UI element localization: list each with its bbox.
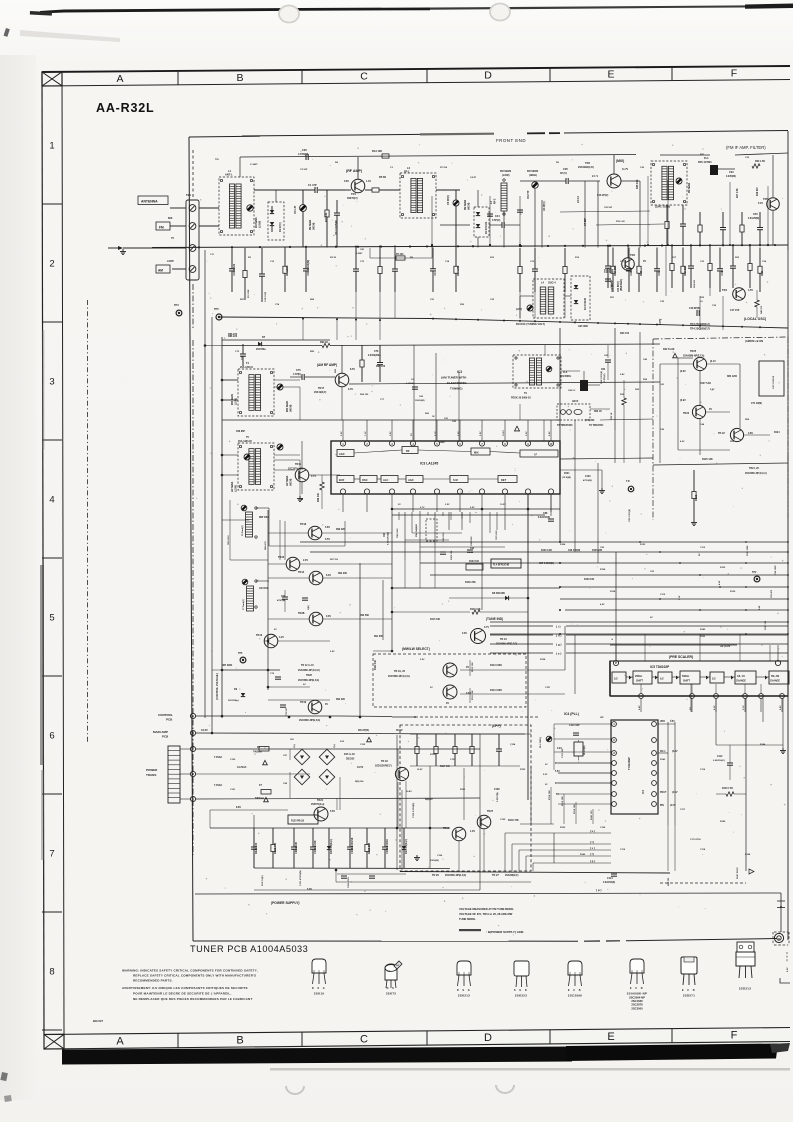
svg-text:4.5V: 4.5V bbox=[713, 705, 716, 710]
svg-text:C74: C74 bbox=[275, 303, 280, 306]
svg-text:4.5V: 4.5V bbox=[600, 603, 605, 606]
svg-text:PCB: PCB bbox=[162, 735, 169, 739]
svg-text:R94 1K: R94 1K bbox=[320, 341, 328, 344]
svg-text:C98 0.022: C98 0.022 bbox=[397, 528, 399, 538]
svg-text:NE REMPLACER QUE DES PIECES RE: NE REMPLACER QUE DES PIECES RECOMMANDEES… bbox=[133, 997, 253, 1001]
svg-text:7.3VAC: 7.3VAC bbox=[214, 756, 222, 759]
svg-text:C91 470: C91 470 bbox=[770, 589, 773, 598]
svg-text:TP2: TP2 bbox=[752, 571, 757, 574]
svg-text:4.5V: 4.5V bbox=[786, 967, 789, 972]
svg-text:2SK212: 2SK212 bbox=[458, 994, 470, 998]
svg-text:0.01/25(M): 0.01/25(M) bbox=[748, 218, 759, 220]
svg-text:(HIGH): (HIGH) bbox=[529, 174, 537, 177]
svg-text:16.5V: 16.5V bbox=[357, 766, 364, 769]
svg-text:C94 102P: C94 102P bbox=[774, 565, 777, 575]
svg-text:T81: T81 bbox=[215, 159, 220, 161]
svg-text:C32: C32 bbox=[745, 157, 750, 159]
svg-text:C82: C82 bbox=[452, 421, 457, 423]
svg-text:IC4 (PLL): IC4 (PLL) bbox=[564, 712, 579, 716]
svg-text:C119: C119 bbox=[620, 849, 626, 851]
svg-text:C123: C123 bbox=[450, 759, 456, 761]
svg-text:C96 470(M): C96 470(M) bbox=[568, 549, 580, 552]
svg-text:AGC: AGC bbox=[408, 478, 414, 482]
svg-text:C18 0.022: C18 0.022 bbox=[265, 291, 267, 302]
svg-text:R4: R4 bbox=[335, 161, 339, 164]
svg-text:2SC606K-NP(E,F,G): 2SC606K-NP(E,F,G) bbox=[299, 720, 320, 722]
svg-text:GND: GND bbox=[440, 442, 445, 444]
svg-text:AM IF: AM IF bbox=[572, 400, 579, 403]
svg-text:R84 1206: R84 1206 bbox=[727, 375, 738, 378]
svg-text:C47 0.022/16: C47 0.022/16 bbox=[772, 375, 775, 389]
svg-text:4: 4 bbox=[412, 443, 414, 446]
svg-text:+B (3.9V: +B (3.9V bbox=[720, 644, 731, 648]
svg-text:R109 10K: R109 10K bbox=[584, 579, 595, 581]
svg-text:C97 0.022: C97 0.022 bbox=[496, 530, 498, 540]
svg-text:8: 8 bbox=[49, 967, 54, 978]
svg-text:D2 SVC321: D2 SVC321 bbox=[486, 221, 488, 234]
svg-text:R28: R28 bbox=[760, 270, 764, 275]
svg-text:C100 10/16: C100 10/16 bbox=[313, 840, 317, 854]
svg-text:TR21, 26: TR21, 26 bbox=[749, 467, 760, 470]
svg-text:C109 2.2/50(M): C109 2.2/50(M) bbox=[413, 803, 415, 818]
svg-text:1.4V: 1.4V bbox=[366, 180, 371, 183]
svg-text:2.1V: 2.1V bbox=[743, 705, 745, 710]
svg-text:2: 2 bbox=[613, 738, 615, 742]
svg-text:C31: C31 bbox=[720, 270, 724, 275]
svg-text:R144: R144 bbox=[760, 743, 766, 746]
svg-text:R3 1K: R3 1K bbox=[330, 257, 337, 259]
svg-text:(TUNE IND): (TUNE IND) bbox=[486, 617, 503, 621]
svg-text:TR 19, 20: TR 19, 20 bbox=[394, 670, 406, 673]
svg-text:R120 PB110: R120 PB110 bbox=[291, 821, 305, 823]
svg-text:(AM/FM +B ON: (AM/FM +B ON bbox=[745, 339, 763, 343]
svg-text:TR18: TR18 bbox=[300, 523, 307, 526]
svg-text:C75: C75 bbox=[296, 369, 301, 372]
svg-text:3: 3 bbox=[49, 377, 54, 388]
svg-text:R(B) 140: R(B) 140 bbox=[355, 780, 364, 783]
svg-text:R86 220: R86 220 bbox=[228, 335, 238, 338]
svg-text:D7: D7 bbox=[262, 336, 266, 339]
svg-text:2.1V: 2.1V bbox=[679, 595, 681, 600]
svg-text:0.7V: 0.7V bbox=[484, 626, 489, 629]
svg-text:R93 56K: R93 56K bbox=[360, 615, 369, 617]
svg-text:SHIFT: SHIFT bbox=[636, 680, 643, 683]
svg-text:R124: R124 bbox=[774, 431, 780, 434]
svg-text:R143: R143 bbox=[660, 758, 666, 761]
svg-text:TR25: TR25 bbox=[690, 350, 697, 353]
svg-text:C25: C25 bbox=[302, 148, 307, 152]
svg-text:AGC: AGC bbox=[339, 452, 345, 456]
svg-text:0.8V: 0.8V bbox=[748, 432, 753, 435]
svg-text:C1 47P: C1 47P bbox=[308, 183, 317, 187]
svg-text:2SD313: 2SD313 bbox=[739, 987, 751, 991]
svg-text:( q ): ( q ) bbox=[590, 859, 595, 863]
svg-text:LW OSC: LW OSC bbox=[259, 587, 269, 590]
svg-text:4: 4 bbox=[49, 495, 54, 506]
svg-text:0V: 0V bbox=[709, 408, 712, 411]
svg-text:C3: C3 bbox=[390, 167, 394, 169]
svg-text:R67: R67 bbox=[240, 299, 245, 301]
svg-text:FM OSC (TUNING VOLT): FM OSC (TUNING VOLT) bbox=[516, 323, 545, 326]
svg-text:C72: C72 bbox=[235, 351, 240, 353]
svg-text:VC1 7P: VC1 7P bbox=[294, 205, 297, 214]
svg-text:3: 3 bbox=[613, 751, 615, 755]
svg-text:R106 10K: R106 10K bbox=[451, 550, 453, 560]
svg-text:2: 2 bbox=[49, 259, 54, 270]
svg-text:FM SENS: FM SENS bbox=[527, 170, 538, 173]
svg-text:7.1V: 7.1V bbox=[365, 431, 367, 436]
svg-text:800: 800 bbox=[168, 216, 173, 220]
svg-text:75: 75 bbox=[171, 236, 174, 240]
svg-text:D9: D9 bbox=[234, 688, 238, 691]
svg-text:8.5V: 8.5V bbox=[350, 368, 355, 371]
svg-text:R29 620: R29 620 bbox=[757, 187, 759, 196]
svg-text:C107: C107 bbox=[545, 687, 551, 689]
svg-text:R19 1.2K: R19 1.2K bbox=[616, 221, 625, 223]
svg-text:R135: R135 bbox=[720, 567, 726, 569]
svg-text:(BUFFER): (BUFFER) bbox=[620, 279, 623, 291]
svg-text:TP3: TP3 bbox=[174, 304, 179, 307]
svg-text:C6 3P(C): C6 3P(C) bbox=[544, 201, 546, 211]
svg-text:C77: C77 bbox=[380, 399, 385, 401]
svg-text:2.0V: 2.0V bbox=[303, 559, 308, 562]
svg-text:VOLTAGE OF IC5, TR11 to 20,: VOLTAGE OF IC5, TR11 to 20, 28 ARE MW bbox=[459, 912, 513, 916]
svg-text:(FS) 280: (FS) 280 bbox=[585, 419, 595, 422]
svg-text:C(L): C(L) bbox=[334, 744, 336, 748]
svg-text:C95: C95 bbox=[600, 547, 605, 549]
svg-text:R1 100K: R1 100K bbox=[285, 265, 289, 275]
svg-text:0.8V: 0.8V bbox=[344, 180, 349, 183]
svg-text:3: 3 bbox=[192, 772, 194, 776]
svg-text:DS1555: DS1555 bbox=[346, 759, 355, 761]
svg-text:(HIGH): (HIGH) bbox=[469, 202, 471, 210]
svg-text:6.7V: 6.7V bbox=[420, 507, 425, 509]
svg-text:R98 10K: R98 10K bbox=[318, 493, 320, 502]
svg-text:4.7P(K): 4.7P(K) bbox=[293, 373, 301, 376]
svg-text:18P: 18P bbox=[600, 717, 604, 719]
svg-text:E: E bbox=[607, 69, 614, 81]
svg-text:3SK73: 3SK73 bbox=[386, 992, 396, 996]
svg-text:C97: C97 bbox=[283, 755, 288, 757]
svg-text:R96 330: R96 330 bbox=[360, 394, 369, 396]
svg-text:R116 10K: R116 10K bbox=[574, 804, 576, 814]
svg-text:R90 1K: R90 1K bbox=[594, 411, 602, 413]
svg-text:R89 4.7K: R89 4.7K bbox=[264, 541, 267, 550]
svg-text:C118: C118 bbox=[700, 849, 706, 851]
svg-text:R97 150: R97 150 bbox=[330, 559, 339, 561]
svg-text:AVERTISSEMENT: ILS INDIQUE L: AVERTISSEMENT: ILS INDIQUE LES COMPOSANT… bbox=[122, 986, 248, 990]
svg-text:R148: R148 bbox=[745, 853, 751, 856]
svg-text:C: C bbox=[360, 1033, 368, 1045]
svg-text:R13 10K: R13 10K bbox=[372, 149, 382, 153]
svg-text:B: B bbox=[236, 72, 243, 84]
svg-text:31.5V: 31.5V bbox=[201, 728, 208, 732]
svg-text:2SC2564-NP: 2SC2564-NP bbox=[629, 996, 645, 1000]
svg-text:FM SENS: FM SENS bbox=[310, 219, 312, 230]
svg-text:E C B: E C B bbox=[630, 987, 644, 990]
svg-text:0V: 0V bbox=[545, 764, 548, 766]
svg-text:D13 5.6(K,F): D13 5.6(K,F) bbox=[329, 839, 333, 854]
svg-text:7.3VAC: 7.3VAC bbox=[214, 784, 222, 787]
svg-text:( g ): ( g ) bbox=[556, 643, 562, 647]
svg-text:4.7/35(M): 4.7/35(M) bbox=[298, 153, 308, 156]
svg-text:0.0033(48H): 0.0033(48H) bbox=[368, 354, 381, 357]
svg-text:TR11: TR11 bbox=[295, 463, 302, 466]
svg-text:R10: R10 bbox=[490, 257, 495, 259]
svg-text:C34: C34 bbox=[762, 260, 767, 263]
svg-text:C22: C22 bbox=[490, 299, 495, 301]
svg-text:FM SENS: FM SENS bbox=[500, 170, 511, 173]
svg-text:CONTROL: CONTROL bbox=[158, 713, 173, 717]
svg-text:C104 100/16: C104 100/16 bbox=[385, 839, 389, 854]
svg-text:( i ): ( i ) bbox=[556, 625, 561, 629]
svg-text:RF: RF bbox=[406, 449, 410, 453]
svg-text:FL1: FL1 bbox=[704, 156, 709, 160]
svg-text:C28: C28 bbox=[629, 270, 633, 275]
svg-text:5.6V: 5.6V bbox=[330, 810, 335, 813]
svg-text:0.0027(M): 0.0027(M) bbox=[497, 792, 499, 802]
svg-text:R31: R31 bbox=[610, 297, 615, 299]
svg-text:2.2V: 2.2V bbox=[341, 431, 343, 436]
svg-text:BUF: BUF bbox=[339, 478, 345, 482]
svg-text:R136: R136 bbox=[700, 636, 706, 638]
svg-text:0.7V: 0.7V bbox=[311, 475, 316, 478]
svg-text:C4 3P: C4 3P bbox=[470, 176, 477, 179]
svg-text:C41: C41 bbox=[660, 383, 665, 386]
svg-text:IC4: IC4 bbox=[641, 789, 645, 794]
svg-text:3.3/50(M): 3.3/50(M) bbox=[726, 176, 736, 178]
svg-text:( f ): ( f ) bbox=[590, 852, 594, 856]
svg-text:OSC-4: OSC-4 bbox=[548, 282, 556, 285]
svg-text:2: 2 bbox=[192, 747, 194, 751]
svg-text:4: 4 bbox=[192, 797, 194, 801]
svg-text:R122 400: R122 400 bbox=[273, 842, 277, 854]
svg-text:C13: C13 bbox=[360, 261, 365, 263]
svg-text:6: 6 bbox=[192, 714, 194, 718]
svg-text:RF-1: RF-1 bbox=[404, 171, 410, 174]
svg-text:MW SENS: MW SENS bbox=[232, 394, 234, 405]
svg-text:C: C bbox=[360, 71, 368, 83]
svg-text:LOOP: LOOP bbox=[167, 260, 174, 263]
svg-text:A: A bbox=[116, 1036, 124, 1048]
svg-text:C29: C29 bbox=[657, 270, 661, 275]
svg-text:9: 9 bbox=[527, 443, 529, 446]
svg-text:VOLTAGE MEASURED AT FM TUN: VOLTAGE MEASURED AT FM TUNE MODE. bbox=[459, 907, 514, 911]
svg-text:C12: C12 bbox=[270, 261, 275, 263]
svg-text:R58: R58 bbox=[745, 419, 750, 421]
svg-text:10/16(M): 10/16(M) bbox=[430, 860, 439, 862]
svg-text:R2: R2 bbox=[248, 257, 252, 259]
svg-text:FM: FM bbox=[159, 225, 164, 229]
svg-text:D8 DS442B: D8 DS442B bbox=[492, 592, 505, 595]
svg-text:T.P.: T.P. bbox=[626, 480, 630, 483]
svg-text:1: 1 bbox=[49, 141, 54, 152]
svg-text:TR13: TR13 bbox=[256, 634, 263, 637]
svg-text:T9: T9 bbox=[524, 392, 527, 395]
svg-text:C39: C39 bbox=[712, 305, 717, 307]
svg-text:C25: C25 bbox=[563, 167, 568, 171]
svg-text:C20 8P(C): C20 8P(C) bbox=[618, 281, 620, 292]
svg-text:2SA-1359-O: 2SA-1359-O bbox=[240, 366, 253, 369]
svg-text:(HIGH): (HIGH) bbox=[291, 478, 293, 486]
svg-text:F: F bbox=[731, 67, 737, 79]
svg-text:C30: C30 bbox=[729, 171, 734, 174]
svg-text:TR 27: TR 27 bbox=[492, 874, 499, 877]
svg-text:8.8V: 8.8V bbox=[759, 605, 761, 610]
svg-text:D15 to 18: D15 to 18 bbox=[344, 753, 355, 756]
svg-text:L4: L4 bbox=[541, 282, 545, 285]
svg-text:C122: C122 bbox=[360, 744, 366, 746]
svg-text:0.6V: 0.6V bbox=[462, 632, 467, 635]
svg-text:C5 3P(C): C5 3P(C) bbox=[447, 195, 450, 205]
svg-text:R27 1.5K: R27 1.5K bbox=[737, 188, 739, 198]
svg-text:B: B bbox=[236, 1035, 243, 1047]
svg-text:C112: C112 bbox=[717, 756, 723, 758]
svg-text:14.5V: 14.5V bbox=[417, 768, 423, 771]
svg-text:E C B: E C B bbox=[682, 989, 696, 992]
svg-text:1/2: 1/2 bbox=[614, 677, 618, 681]
svg-text:TR 22: TR 22 bbox=[718, 432, 725, 435]
svg-text:R7 220: R7 220 bbox=[440, 167, 448, 169]
svg-text:1: 1 bbox=[613, 722, 615, 726]
svg-text:B7 220: B7 220 bbox=[396, 254, 404, 256]
svg-text:MAIN AMP: MAIN AMP bbox=[153, 730, 168, 734]
svg-text:R128: R128 bbox=[540, 659, 546, 661]
svg-text:( p ): ( p ) bbox=[596, 888, 602, 892]
svg-text:2SD313HP(E,F): 2SD313HP(E,F) bbox=[375, 766, 392, 768]
svg-text:C35: C35 bbox=[660, 301, 665, 303]
svg-text:A: A bbox=[116, 73, 123, 85]
svg-text:( e ): ( e ) bbox=[556, 652, 561, 656]
svg-text:D4 KV1236: D4 KV1236 bbox=[584, 297, 587, 310]
svg-text:F: F bbox=[731, 1030, 738, 1042]
svg-text:C76: C76 bbox=[374, 350, 379, 353]
svg-text:(AM RF AMP): (AM RF AMP) bbox=[317, 363, 337, 367]
svg-text:0V: 0V bbox=[325, 703, 328, 706]
svg-text:R87 390K: R87 390K bbox=[222, 665, 233, 667]
svg-text:0.2V: 0.2V bbox=[480, 431, 482, 436]
svg-text:2SD571: 2SD571 bbox=[683, 994, 695, 998]
svg-text:BK/327: BK/327 bbox=[93, 1019, 104, 1023]
svg-text:5: 5 bbox=[192, 731, 194, 735]
svg-text:C14: C14 bbox=[445, 260, 450, 263]
svg-text:TR1: TR1 bbox=[351, 192, 356, 196]
svg-text:C27: C27 bbox=[620, 261, 625, 263]
svg-text:R115 10K: R115 10K bbox=[562, 796, 564, 806]
svg-text:C106: C106 bbox=[437, 855, 443, 857]
svg-text:TR3: TR3 bbox=[630, 253, 635, 257]
svg-text:MIX: MIX bbox=[474, 451, 479, 455]
svg-text:FM SENS: FM SENS bbox=[465, 199, 467, 210]
svg-text:0V: 0V bbox=[303, 684, 306, 686]
svg-text:F7: F7 bbox=[259, 784, 263, 787]
svg-text:(LOW): (LOW) bbox=[236, 398, 238, 405]
svg-text:R113 100K: R113 100K bbox=[490, 689, 502, 692]
svg-text:D S: D S bbox=[387, 987, 396, 990]
svg-text:C50: C50 bbox=[753, 213, 758, 216]
svg-text:R9: R9 bbox=[556, 162, 560, 164]
svg-text:R33 1K: R33 1K bbox=[611, 412, 613, 420]
svg-text:C40: C40 bbox=[643, 358, 648, 361]
svg-text:AM 100K: AM 100K bbox=[578, 325, 588, 328]
svg-text:11.7V: 11.7V bbox=[622, 168, 629, 171]
svg-text:3: 3 bbox=[391, 443, 393, 446]
svg-text:100/16(M): 100/16(M) bbox=[415, 400, 425, 402]
svg-text:R153: R153 bbox=[560, 827, 566, 829]
svg-text:C(L): C(L) bbox=[294, 744, 296, 748]
svg-text:0.5P(C): 0.5P(C) bbox=[492, 219, 500, 222]
svg-text:C10 0.022(M): C10 0.022(M) bbox=[306, 260, 310, 276]
svg-text:C108: C108 bbox=[494, 789, 500, 791]
svg-text:R1 100K: R1 100K bbox=[248, 289, 250, 298]
svg-text:C120: C120 bbox=[230, 759, 236, 761]
svg-text:R16 68K: R16 68K bbox=[613, 265, 617, 275]
svg-text:R138: R138 bbox=[610, 591, 616, 593]
svg-text:0.022/16(K): 0.022/16(K) bbox=[603, 882, 615, 884]
svg-text:R114 10K: R114 10K bbox=[548, 790, 551, 800]
svg-text:(LOCAL OSC): (LOCAL OSC) bbox=[744, 317, 766, 321]
svg-text:: B(POWER SUPPLY) LINE: : B(POWER SUPPLY) LINE bbox=[486, 930, 524, 934]
svg-text:4.8V: 4.8V bbox=[638, 705, 641, 710]
svg-text:(CONTROL VOLTAGE ): (CONTROL VOLTAGE ) bbox=[216, 673, 219, 700]
svg-text:SHIFT: SHIFT bbox=[683, 680, 690, 683]
svg-text:FM SENS: FM SENS bbox=[689, 182, 691, 193]
svg-text:R127 5.6K: R127 5.6K bbox=[700, 383, 711, 385]
svg-text:TUNER PCB A1004A5033: TUNER PCB A1004A5033 bbox=[190, 944, 308, 954]
svg-text:C26: C26 bbox=[640, 167, 645, 169]
svg-text:R131 100K: R131 100K bbox=[747, 545, 749, 556]
svg-text:CHANGE: CHANGE bbox=[770, 680, 780, 683]
svg-text:2SC2999(C,D): 2SC2999(C,D) bbox=[578, 166, 594, 169]
svg-text:E C B: E C B bbox=[568, 989, 582, 992]
svg-text:TR24: TR24 bbox=[683, 412, 690, 415]
svg-text:AA-R32L: AA-R32L bbox=[96, 101, 154, 115]
svg-text:C102 1000/16: C102 1000/16 bbox=[350, 837, 354, 854]
svg-text:0V: 0V bbox=[650, 617, 653, 619]
svg-text:2SC2878: 2SC2878 bbox=[631, 1003, 643, 1007]
svg-text:ANTENNA: ANTENNA bbox=[141, 200, 158, 204]
svg-text:C21: C21 bbox=[430, 299, 435, 301]
svg-text:6.3V: 6.3V bbox=[326, 574, 331, 577]
svg-text:P: P bbox=[615, 661, 617, 665]
svg-text:R5 86: R5 86 bbox=[379, 175, 386, 179]
svg-text:C125: C125 bbox=[500, 819, 506, 821]
svg-text:TB1: TB1 bbox=[186, 193, 191, 197]
svg-text:47/16(M): 47/16(M) bbox=[583, 479, 592, 482]
svg-text:0.001(K): 0.001(K) bbox=[604, 373, 606, 382]
svg-text:REPLACE SAFETY CRITICAL COMPON: REPLACE SAFETY CRITICAL COMPONENTS ONLY … bbox=[133, 974, 256, 978]
svg-text:D10: D10 bbox=[340, 741, 345, 743]
svg-text:R17: R17 bbox=[672, 257, 677, 259]
svg-text:C114: C114 bbox=[607, 877, 613, 880]
svg-text:10.5V: 10.5V bbox=[503, 430, 505, 436]
svg-text:0V: 0V bbox=[643, 260, 646, 263]
svg-text:0V: 0V bbox=[699, 553, 701, 556]
svg-text:LW SENS: LW SENS bbox=[232, 481, 234, 492]
svg-text:(RF AMP): (RF AMP) bbox=[346, 169, 363, 173]
svg-text:2SC558K-NP(E,F,G): 2SC558K-NP(E,F,G) bbox=[298, 680, 319, 682]
svg-text:MW SENS: MW SENS bbox=[287, 401, 289, 412]
svg-text:L1 ANT: L1 ANT bbox=[250, 163, 258, 166]
svg-text:1/2: 1/2 bbox=[712, 677, 716, 681]
svg-text:POWER: POWER bbox=[146, 768, 158, 772]
svg-text:TR4: TR4 bbox=[722, 288, 727, 292]
svg-text:D S G: D S G bbox=[312, 987, 326, 990]
svg-text:PCB: PCB bbox=[166, 718, 173, 722]
svg-text:C18 8P(B): C18 8P(B) bbox=[689, 307, 700, 310]
svg-text:C80: C80 bbox=[419, 396, 424, 398]
svg-text:P: P bbox=[612, 638, 614, 640]
